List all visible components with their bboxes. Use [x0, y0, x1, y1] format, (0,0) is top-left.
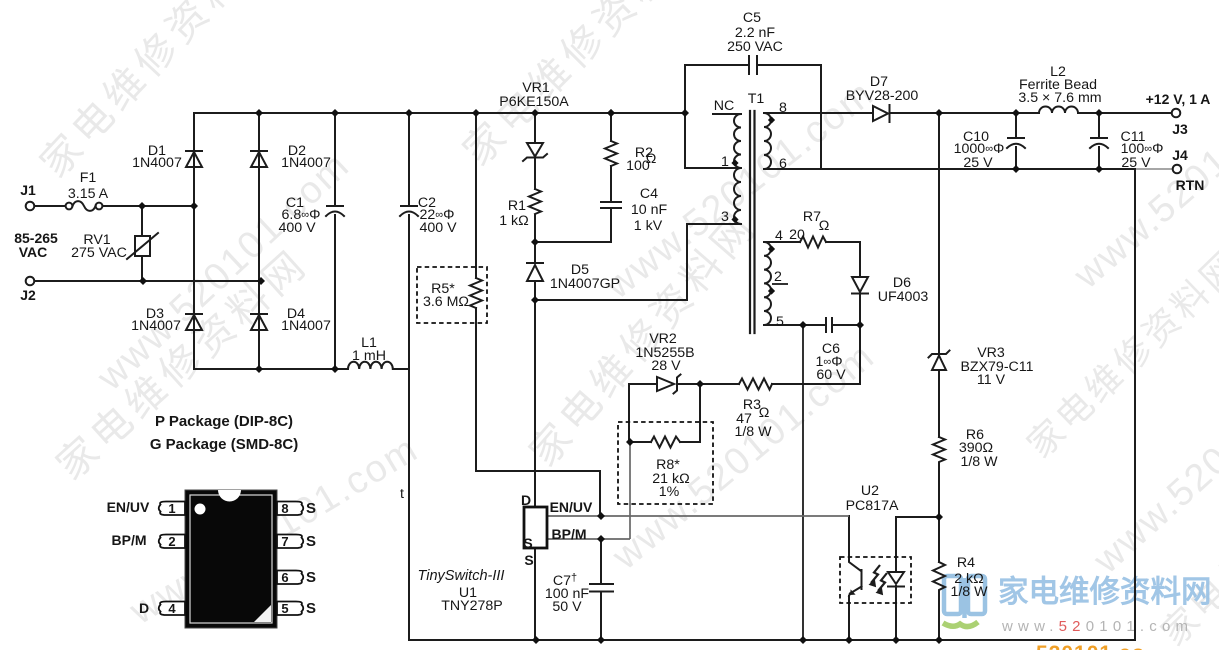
- inductor L2: [1039, 107, 1078, 113]
- resistor R3: [739, 379, 772, 390]
- svg-text:家电维修资料网: 家电维修资料网: [1019, 242, 1219, 466]
- wire top bus: [194, 112, 685, 114]
- logo green swoosh: [943, 622, 978, 627]
- wire VR3/R6/R4 column: [938, 113, 940, 640]
- svg-text:4: 4: [775, 228, 783, 244]
- svg-text:RTN: RTN: [1176, 177, 1205, 193]
- svg-text:20: 20: [789, 227, 805, 243]
- svg-text:3.6 MΩ: 3.6 MΩ: [423, 294, 469, 310]
- wire C11 column: [1098, 113, 1100, 169]
- wire bottom bus: [409, 639, 1135, 641]
- wire pin 8 output line: [764, 112, 1171, 114]
- wire D6 cathode tail: [859, 293, 861, 325]
- svg-text:R1: R1: [508, 198, 526, 214]
- wire RTN gray segment: [1135, 168, 1172, 170]
- TVS VR1: [523, 143, 547, 161]
- capacitor C11: [1090, 138, 1108, 148]
- svg-text:6: 6: [779, 156, 787, 172]
- svg-text:3: 3: [721, 209, 729, 225]
- svg-text:S: S: [524, 552, 533, 568]
- wire U1 source to bus: [534, 548, 536, 640]
- wire node A: [535, 241, 611, 243]
- svg-text:1N4007: 1N4007: [281, 318, 331, 334]
- transformer T1 core: [750, 111, 755, 333]
- svg-text:NC: NC: [714, 98, 735, 114]
- svg-text:5: 5: [776, 314, 784, 330]
- svg-text:UF4003: UF4003: [878, 289, 929, 305]
- svg-text:28 V: 28 V: [651, 358, 681, 374]
- diode D3: [186, 314, 202, 330]
- diode D7: [873, 105, 890, 122]
- svg-text:3.15 A: 3.15 A: [68, 186, 109, 202]
- wire C5 branch: [685, 65, 821, 169]
- wire NC stub: [713, 113, 741, 115]
- svg-text:家电维修资料网: 家电维修资料网: [998, 575, 1212, 609]
- wire VR1/R1/D5 column: [534, 113, 536, 300]
- IC pin 1: [159, 502, 304, 616]
- svg-text:S: S: [306, 533, 316, 550]
- resistor R6: [933, 437, 945, 464]
- wire RV1 column: [141, 206, 143, 281]
- svg-text:1N4007: 1N4007: [131, 318, 181, 334]
- resistor R1: [529, 189, 541, 214]
- svg-text:C4: C4: [640, 186, 658, 202]
- wire opto collector branch: [849, 516, 861, 571]
- svg-text:Ω: Ω: [646, 151, 657, 167]
- wire C2 column: [408, 113, 410, 369]
- resistor R4: [933, 562, 945, 592]
- wire J1 input: [34, 205, 194, 207]
- wire J2 input: [34, 280, 261, 282]
- svg-text:1: 1: [168, 501, 175, 516]
- transformer secondary winding: [764, 113, 771, 169]
- terminal J2: [26, 277, 35, 286]
- transformer primary winding: [734, 114, 741, 224]
- svg-text:t: t: [400, 486, 404, 502]
- svg-text:BP/M: BP/M: [552, 526, 587, 542]
- svg-text:TinySwitch-III: TinySwitch-III: [418, 568, 505, 584]
- U1 TinySwitch box: [524, 507, 547, 548]
- capacitor C7: [590, 584, 613, 592]
- svg-text:R4: R4: [957, 555, 975, 571]
- wire EN/UV line: [547, 515, 849, 517]
- svg-text:8: 8: [779, 100, 787, 116]
- IC pin 7: [277, 535, 303, 549]
- wire BP/M to R8 riser: [629, 442, 631, 539]
- svg-text:520101.co: 520101.co: [1036, 642, 1145, 650]
- IC pin 5: [277, 602, 303, 616]
- zener VR2: [657, 375, 681, 394]
- diode D4: [251, 314, 267, 330]
- IC pin 4: [159, 602, 185, 616]
- svg-text:www.520101.com: www.520101.com: [89, 144, 358, 399]
- svg-text:25 V: 25 V: [963, 155, 993, 171]
- capacitor C6: [826, 318, 832, 332]
- IC pin 2: [159, 535, 185, 549]
- svg-text:EN/UV: EN/UV: [550, 499, 593, 515]
- capacitor C10: [1007, 138, 1025, 148]
- diode D6: [852, 277, 868, 294]
- light arrows in optocoupler: [870, 565, 888, 595]
- NC underline: [713, 113, 735, 115]
- wire R8 right leg: [630, 384, 700, 442]
- svg-text:8: 8: [281, 501, 288, 516]
- wire pin 2 stub: [772, 283, 788, 285]
- wire D2/D4 column: [258, 113, 260, 369]
- wire pin 6 return line: [764, 168, 1135, 170]
- svg-text:10 nF: 10 nF: [631, 202, 668, 218]
- wire pin 5 to C6: [764, 324, 860, 326]
- resistor R2: [605, 141, 617, 166]
- wire C6/D6 junction down to R3: [700, 325, 860, 384]
- svg-text:1N4007GP: 1N4007GP: [550, 276, 620, 292]
- IC pin 6: [277, 571, 303, 585]
- svg-text:1/8 W: 1/8 W: [734, 424, 772, 440]
- svg-text:F1: F1: [80, 170, 97, 186]
- svg-text:1 kΩ: 1 kΩ: [499, 213, 529, 229]
- svg-text:5: 5: [281, 601, 288, 616]
- svg-text:C5: C5: [743, 10, 761, 26]
- svg-text:VAC: VAC: [19, 244, 48, 260]
- svg-text:J1: J1: [20, 182, 36, 198]
- svg-text:S: S: [306, 569, 316, 586]
- svg-text:250 VAC: 250 VAC: [727, 39, 783, 55]
- opto transistor U2: [849, 570, 862, 596]
- resistor R7: [800, 237, 826, 248]
- svg-text:P Package (DIP-8C): P Package (DIP-8C): [155, 413, 293, 430]
- svg-text:D: D: [521, 492, 531, 508]
- svg-text:Ω: Ω: [759, 405, 770, 421]
- svg-text:1/8 W: 1/8 W: [950, 584, 988, 600]
- svg-text:家电维修资料网: 家电维修资料网: [455, 0, 714, 174]
- svg-text:1N4007: 1N4007: [132, 155, 182, 171]
- svg-text:TNY278P: TNY278P: [441, 598, 503, 614]
- svg-text:BYV28-200: BYV28-200: [846, 88, 919, 104]
- svg-text:Ω: Ω: [819, 218, 830, 234]
- wire drain line to U1: [534, 300, 536, 507]
- IC pin 8: [277, 502, 303, 516]
- IC package U1 body: [185, 490, 277, 628]
- svg-text:11 V: 11 V: [977, 372, 1006, 388]
- capacitor C5: [749, 56, 757, 74]
- wire LED cathode to bus: [895, 586, 897, 640]
- svg-text:+12 V, 1 A: +12 V, 1 A: [1146, 91, 1211, 107]
- svg-text:EN/UV: EN/UV: [107, 499, 150, 515]
- svg-text:PC817A: PC817A: [846, 498, 899, 514]
- svg-text:www.520101.com: www.520101.com: [1001, 618, 1193, 635]
- terminal J1: [26, 202, 35, 211]
- wire LED top branch: [896, 517, 939, 572]
- svg-text:D: D: [139, 600, 149, 616]
- svg-text:1/8 W: 1/8 W: [960, 454, 998, 470]
- wire C7 column: [600, 539, 602, 640]
- svg-text:3.5 × 7.6 mm: 3.5 × 7.6 mm: [1018, 90, 1101, 106]
- diode D1: [186, 151, 202, 167]
- wire bridge bottom bus: [194, 368, 409, 370]
- svg-text:400 V: 400 V: [278, 220, 316, 236]
- wire BP/M line: [547, 538, 630, 540]
- svg-text:25 V: 25 V: [1121, 155, 1151, 171]
- diode D5: [527, 263, 543, 281]
- dashed box R8: [618, 422, 713, 504]
- opto LED: [888, 572, 904, 587]
- svg-text:1 kV: 1 kV: [634, 218, 663, 234]
- varistor RV1: [135, 236, 150, 256]
- svg-text:7: 7: [281, 534, 288, 549]
- wire right vertical drop: [1134, 169, 1136, 640]
- wire C10 column: [1015, 113, 1017, 169]
- fuse F1: [66, 203, 73, 210]
- svg-text:J2: J2: [20, 287, 36, 303]
- svg-text:1%: 1%: [659, 484, 680, 500]
- logo book icon: [944, 576, 985, 618]
- wire VR2 connections: [629, 384, 700, 442]
- svg-text:BP/M: BP/M: [112, 532, 147, 548]
- wire to transformer pin 1: [685, 113, 741, 168]
- transformer phasing dots: [731, 116, 775, 294]
- svg-text:S: S: [306, 500, 316, 517]
- capacitor C1: [326, 206, 344, 216]
- wire R2/C4 column: [610, 113, 612, 242]
- svg-text:2: 2: [168, 534, 175, 549]
- terminal J3: [1172, 109, 1181, 118]
- svg-text:2: 2: [774, 269, 782, 285]
- svg-text:J3: J3: [1172, 121, 1188, 137]
- svg-text:U2: U2: [861, 483, 879, 499]
- svg-text:6: 6: [281, 570, 288, 585]
- svg-text:1N4007: 1N4007: [281, 155, 331, 171]
- resistor R5: [470, 278, 482, 308]
- capacitor C4: [601, 202, 621, 208]
- gray feedback wires: [547, 442, 849, 539]
- zener VR3: [929, 351, 950, 371]
- terminal J4: [1173, 165, 1182, 174]
- svg-text:60 V: 60 V: [816, 367, 846, 383]
- svg-text:4: 4: [168, 601, 176, 616]
- wire C1 column: [334, 113, 336, 369]
- svg-text:G Package (SMD-8C): G Package (SMD-8C): [150, 436, 298, 453]
- svg-text:1: 1: [721, 154, 729, 170]
- svg-text:1 mH: 1 mH: [352, 348, 386, 364]
- dashed box U2: [840, 557, 911, 603]
- capacitor C2: [400, 206, 418, 216]
- wire left vertical drop: [408, 369, 410, 640]
- svg-text:400 V: 400 V: [419, 220, 457, 236]
- inductor L1: [348, 362, 393, 369]
- wire bias return drop: [802, 325, 804, 640]
- svg-text:S: S: [523, 535, 532, 551]
- wire D1/D3 column: [193, 113, 195, 369]
- svg-text:T1: T1: [748, 91, 765, 107]
- diode D2: [251, 151, 267, 167]
- svg-text:S: S: [306, 600, 316, 617]
- wire pin 4 to R7 to D6: [764, 242, 860, 277]
- wire opto emitter to bus: [848, 596, 850, 640]
- transformer bias winding: [764, 242, 771, 325]
- resistor R8: [651, 437, 680, 448]
- svg-text:275 VAC: 275 VAC: [71, 245, 127, 261]
- svg-text:P6KE150A: P6KE150A: [499, 94, 569, 110]
- dashed box R5: [417, 267, 487, 323]
- wire R5 column and jog to EN/UV: [476, 113, 600, 516]
- wire node B to transformer pin 3: [535, 224, 741, 300]
- svg-text:J4: J4: [1172, 147, 1188, 163]
- svg-text:50 V: 50 V: [552, 599, 582, 615]
